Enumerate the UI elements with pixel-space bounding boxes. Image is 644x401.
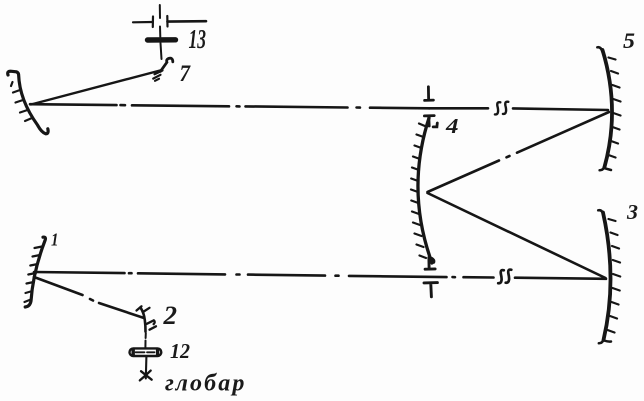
slit 13 vertical axis line <box>160 5 162 59</box>
mirror 1 (bottom-left concave mirror) <box>25 237 45 307</box>
optical axis bottom continuation to mirror 3 <box>453 277 607 279</box>
ray mirror 1 to mirror 2 (dash-dot) <box>34 277 144 318</box>
mirror 1 hatch ticks <box>25 247 43 303</box>
mirror 5 hatch ticks <box>609 58 621 158</box>
collimating mirror hatch ticks <box>11 82 32 121</box>
svg-text:12: 12 <box>170 339 190 363</box>
lamp 12 left electrode <box>131 350 134 355</box>
svg-text:1: 1 <box>51 230 59 250</box>
beam break marks top axis (ss) <box>495 102 508 115</box>
slit 13 left jaw tick <box>152 17 154 28</box>
optical axis bottom (dash-dot) from mirror 1 to slit <box>34 272 447 277</box>
lamp 12 filament dashes <box>136 351 155 353</box>
ray mirror 4 to mirror 3 (solid diagonal) <box>428 193 606 278</box>
mirror 3 hatch ticks <box>608 219 621 333</box>
exit slit marks on bottom axis: upper T <box>425 258 435 270</box>
svg-text:7: 7 <box>180 61 192 86</box>
mirror 2 (small plane mirror) <box>141 308 146 332</box>
collimating mirror top-left (unlabeled) <box>8 71 48 134</box>
mirror 7 (small plane mirror) <box>161 58 173 71</box>
svg-text:13: 13 <box>189 24 207 54</box>
ray mirror 4 to mirror 5 (dash-dot diagonal) <box>428 112 610 192</box>
svg-text:2: 2 <box>162 301 177 330</box>
mirror 4 hatch ticks <box>411 124 426 259</box>
slit 4 lower mark (cap below axis) <box>424 116 437 127</box>
optical axis top continuation after slit 4 <box>429 108 608 110</box>
svg-text:5: 5 <box>623 28 635 53</box>
beam break marks bottom axis (ss) <box>498 270 511 284</box>
globar lamp 12 (capsule) <box>130 348 162 356</box>
svg-text:4: 4 <box>445 114 459 138</box>
dashed line mirror 2 to globar lamp 12 <box>144 333 146 348</box>
lamp 12 right electrode <box>156 350 159 355</box>
ray mirror 7 to collimating mirror <box>31 71 160 105</box>
globar source cross mark <box>140 371 152 381</box>
svg-text:глобар: глобар <box>165 371 246 397</box>
slit 13 horizontal line right segment <box>168 20 207 23</box>
svg-text:3: 3 <box>626 200 638 224</box>
mirror 2 hatch ticks <box>137 306 157 329</box>
slit 4 upper mark (T above axis) <box>425 87 434 101</box>
mirror 7 hatch ticks <box>153 71 162 81</box>
optical axis top (dash-dot) from collimating mirror to slit 4 <box>30 104 429 108</box>
slit 13 horizontal line left segment <box>133 21 153 23</box>
slit 13 thick jaw bar <box>148 37 176 43</box>
lead from lamp 12 to globar source point <box>145 357 148 379</box>
mirror 4 (large concave mirror, center) <box>418 118 432 263</box>
slit 13 right jaw tick <box>166 16 168 27</box>
exit slit marks on bottom axis: lower T <box>424 283 437 297</box>
mirror 5 (right upper concave mirror) <box>603 50 613 167</box>
mirror 3 (right lower concave mirror) <box>603 213 611 341</box>
